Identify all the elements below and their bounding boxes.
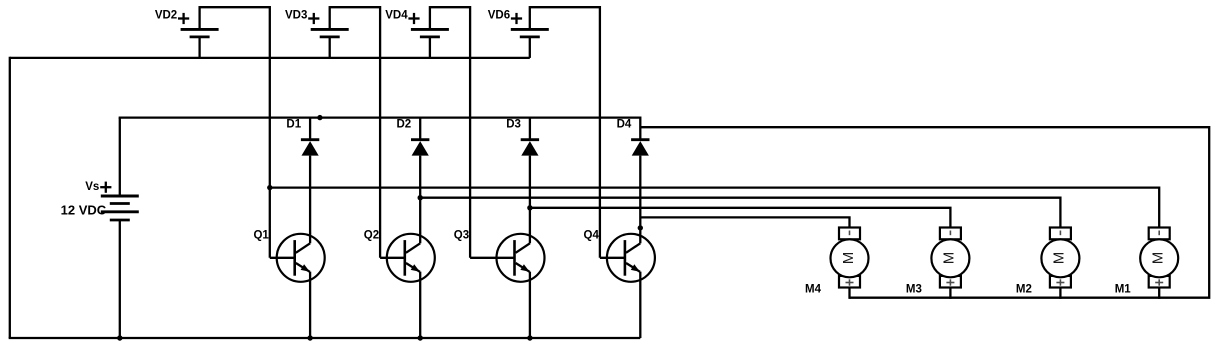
wire left vertical bbox=[9, 57, 11, 338]
junction Q3 emitter at ground bus bbox=[527, 335, 532, 340]
svg-text:12 VDC: 12 VDC bbox=[61, 203, 107, 218]
svg-text:Q3: Q3 bbox=[454, 230, 469, 242]
motor M2 bbox=[1016, 228, 1079, 299]
wire Vs+ bus bbox=[119, 118, 641, 140]
svg-text:D2: D2 bbox=[396, 119, 411, 131]
wire VD4 top loop to Q3 base bbox=[430, 7, 470, 258]
svg-text:D3: D3 bbox=[506, 119, 521, 131]
svg-text:M: M bbox=[840, 252, 857, 265]
diode D1 bbox=[286, 118, 319, 234]
battery VD4 bbox=[385, 6, 449, 58]
wire upper bus (battery negative rail) bbox=[10, 57, 530, 59]
wire feeder to motor M3 bbox=[530, 208, 951, 228]
motor M1 bbox=[1115, 228, 1178, 299]
transistor Q3 bbox=[454, 230, 545, 282]
wire VD6 top loop to Q4 base bbox=[530, 7, 600, 258]
diode D4 bbox=[617, 119, 650, 234]
junction Q2 emitter at ground bus bbox=[418, 335, 423, 340]
wire bottom ground bus bbox=[9, 337, 641, 339]
svg-text:D4: D4 bbox=[617, 119, 632, 131]
wire Q3 emitter to ground bus bbox=[529, 272, 531, 338]
wire Q2 emitter to ground bus bbox=[419, 272, 421, 338]
wire Q4 emitter to ground bus bbox=[639, 272, 641, 338]
wire feeder to motor M4 bbox=[640, 217, 849, 227]
svg-text:Q2: Q2 bbox=[364, 230, 379, 242]
battery VD3 bbox=[285, 6, 349, 58]
svg-text:M: M bbox=[941, 252, 958, 265]
svg-text:VD3: VD3 bbox=[285, 9, 307, 21]
junction feeder M3 tap bbox=[527, 205, 532, 210]
svg-text:M2: M2 bbox=[1016, 283, 1032, 295]
diode D3 bbox=[506, 118, 539, 234]
svg-text:M4: M4 bbox=[805, 283, 822, 295]
svg-text:VD4: VD4 bbox=[385, 9, 408, 21]
battery Vs 12 VDC bbox=[61, 118, 139, 338]
wire feeder to motor M2 bbox=[420, 198, 1060, 228]
junction Vs to ground bus bbox=[117, 335, 122, 340]
svg-text:D1: D1 bbox=[286, 119, 301, 131]
junction Q1 emitter at ground bus bbox=[307, 335, 312, 340]
wire feeder to motor M1 bbox=[270, 188, 1159, 228]
svg-text:Q4: Q4 bbox=[584, 230, 600, 242]
motor M3 bbox=[906, 228, 969, 299]
svg-text:VD6: VD6 bbox=[488, 9, 510, 21]
svg-text:M3: M3 bbox=[906, 283, 922, 295]
svg-text:Vs: Vs bbox=[85, 181, 99, 193]
transistor Q2 bbox=[364, 230, 435, 282]
wire D4 branch to motor return bbox=[640, 127, 1209, 298]
svg-text:VD2: VD2 bbox=[155, 9, 177, 21]
node Q4 collector bbox=[638, 225, 643, 230]
transistor Q4 bbox=[584, 230, 655, 282]
svg-text:M: M bbox=[1150, 252, 1167, 265]
node on Vs+ bus bbox=[317, 115, 322, 120]
wire Q1 emitter to ground bus bbox=[309, 272, 311, 338]
motor M4 bbox=[805, 228, 868, 299]
svg-text:M: M bbox=[1051, 252, 1068, 265]
battery VD2 bbox=[155, 6, 219, 58]
battery VD6 bbox=[488, 6, 549, 58]
junction feeder M2 tap bbox=[418, 195, 423, 200]
wire VD3 top loop to Q2 base bbox=[330, 7, 380, 258]
junction feeder M1 tap bbox=[267, 185, 272, 190]
transistor Q1 bbox=[253, 230, 324, 282]
diode D2 bbox=[396, 118, 429, 234]
svg-text:Q1: Q1 bbox=[253, 230, 269, 242]
svg-text:M1: M1 bbox=[1115, 283, 1132, 295]
wire VD2 top loop to Q1 base bbox=[200, 7, 270, 258]
